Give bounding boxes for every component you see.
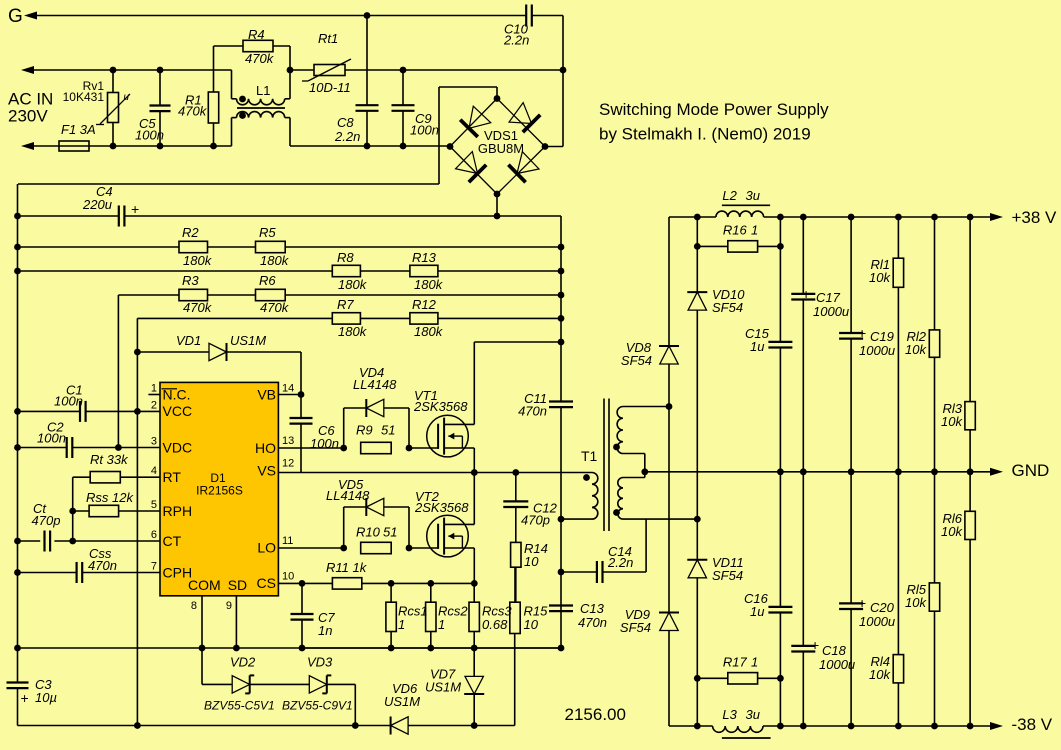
resistor R14: [511, 542, 521, 602]
resistor Rl2 labels: [905, 329, 927, 357]
svg-text:3: 3: [151, 436, 157, 448]
svg-text:10: 10: [282, 571, 294, 583]
svg-text:1: 1: [751, 222, 758, 237]
junction CT left bus: [14, 538, 21, 545]
resistor Rl4: [893, 655, 903, 683]
varistor Rv1 labels: [63, 79, 130, 104]
resistor R6: [256, 289, 286, 300]
junction C9 bottom: [400, 143, 407, 150]
svg-text:1u: 1u: [750, 604, 764, 619]
svg-text:+: +: [21, 690, 29, 706]
wire AC line upper: [21, 66, 232, 74]
svg-text:C13: C13: [580, 601, 605, 616]
resistor R16: [697, 241, 780, 252]
diode VD11: [687, 560, 707, 578]
svg-text:GND: GND: [1012, 461, 1050, 480]
junction R8R13 right: [558, 268, 565, 275]
svg-text:1: 1: [398, 617, 405, 632]
svg-text:COM: COM: [188, 577, 221, 593]
resistor R15 label: [524, 604, 549, 633]
svg-text:0.68: 0.68: [482, 617, 508, 632]
node G label: [8, 6, 23, 27]
fuse F1: [21, 141, 232, 151]
junction VD1 left: [134, 349, 141, 356]
svg-text:10k: 10k: [941, 524, 963, 539]
junction C9 top: [400, 67, 407, 74]
svg-text:2: 2: [151, 399, 157, 411]
resistor R2: [179, 241, 208, 252]
svg-text:Rss 12k: Rss 12k: [86, 490, 134, 505]
thermistor Rt1: [302, 59, 351, 81]
svg-text:GBU8M: GBU8M: [478, 141, 524, 156]
svg-text:6: 6: [151, 529, 157, 541]
capacitor C20 labels: [858, 595, 895, 629]
wire -38 rail: [669, 725, 991, 727]
text part number: [565, 705, 626, 724]
wire AC line lower to bridge: [290, 145, 450, 147]
svg-text:180k: 180k: [414, 324, 444, 339]
svg-text:Switching Mode Power Supply: Switching Mode Power Supply: [599, 100, 829, 119]
svg-text:N.C.: N.C.: [163, 386, 191, 402]
junction R16 right: [777, 243, 784, 250]
junction VDC left bus: [14, 444, 21, 451]
wire CPH line: [18, 572, 161, 574]
svg-text:R8: R8: [337, 250, 354, 265]
bridge diode bottom-right: [508, 152, 539, 183]
wire VD3 down: [327, 684, 356, 725]
svg-text:1000u: 1000u: [813, 304, 849, 319]
inductor L2: [716, 211, 764, 217]
svg-text:BZV55-C5V1: BZV55-C5V1: [204, 699, 275, 713]
resistor Rl5 labels: [905, 582, 927, 610]
capacitor C10: [526, 5, 563, 27]
junction L2 right rail: [777, 214, 784, 221]
junction C7 top: [299, 580, 306, 587]
svg-text:10D-11: 10D-11: [309, 80, 351, 95]
svg-text:RT: RT: [163, 469, 182, 485]
junction bottom VD3: [352, 722, 359, 729]
svg-text:R13: R13: [412, 250, 437, 265]
IC pin4 RT label: [151, 465, 181, 485]
transistor VT1 labels: [413, 388, 468, 414]
diode VD10: [687, 292, 707, 310]
svg-text:C18: C18: [822, 643, 847, 658]
junction Rcs1 bottom: [388, 645, 395, 652]
svg-text:470k: 470k: [178, 104, 208, 119]
capacitor C17 labels: [802, 286, 849, 319]
capacitor C16 labels: [744, 591, 769, 619]
junction CT leg: [69, 538, 76, 545]
junction Rl3 rail: [967, 214, 974, 221]
svg-text:230V: 230V: [8, 107, 48, 126]
svg-text:180k: 180k: [260, 253, 290, 268]
svg-text:R12: R12: [412, 297, 437, 312]
junction secondary bottom tap: [694, 516, 701, 523]
diode VD5: [366, 498, 384, 516]
node -38V label: [1012, 715, 1053, 734]
svg-text:R7: R7: [337, 297, 354, 312]
svg-text:10µ: 10µ: [35, 690, 57, 705]
svg-text:RPH: RPH: [163, 503, 193, 519]
svg-text:470p: 470p: [521, 513, 550, 528]
svg-text:VB: VB: [257, 386, 276, 402]
resistor R1: [208, 46, 218, 146]
resistor Rl1: [893, 258, 903, 287]
junction Rl3 gnd: [967, 468, 974, 475]
junction COM pin: [199, 645, 206, 652]
wire CT line: [18, 540, 161, 542]
resistor R4 labels: [245, 27, 275, 66]
capacitor C18: [791, 646, 815, 652]
junction VD11 R17: [694, 675, 701, 682]
svg-text:2.2n: 2.2n: [503, 33, 529, 48]
wire VCC line: [18, 410, 161, 412]
thermistor Rt1 labels: [309, 31, 351, 95]
IC pin14 VB label: [257, 383, 294, 403]
junction C14 left: [558, 569, 565, 576]
junction VS VT1: [471, 469, 478, 476]
junction secondary top tap: [666, 403, 673, 410]
resistor Rl1 labels: [869, 257, 891, 285]
resistor R10: [361, 542, 392, 553]
diode VD2 labels: [204, 655, 275, 713]
wire R7R12 left leg: [136, 318, 138, 725]
resistor R1 labels: [178, 93, 208, 119]
svg-text:51: 51: [383, 525, 397, 540]
svg-text:1n: 1n: [318, 623, 332, 638]
resistor Rcs2: [426, 583, 436, 648]
wire VD2 branch: [202, 648, 232, 684]
diode VD8: [659, 346, 679, 364]
diode VD9: [659, 613, 679, 631]
junction R2R5 left: [14, 244, 21, 251]
resistor R4: [214, 40, 291, 70]
diode VD8 column: [668, 217, 670, 726]
wire bridge top to left bus: [18, 87, 497, 184]
wire VT2 source to CS: [473, 548, 475, 583]
resistor R3 labels: [182, 273, 213, 315]
capacitor Css: [77, 562, 83, 583]
transformer T1 secondary 2 dot: [613, 509, 620, 516]
inductor L1 polarity dot top: [239, 96, 246, 103]
svg-text:VS: VS: [257, 463, 276, 479]
resistor R12: [410, 313, 438, 324]
diode VD3 labels: [282, 655, 353, 713]
junction Rcs3 bottom: [471, 645, 478, 652]
wire LO line: [278, 547, 343, 549]
capacitor C11 labels: [518, 391, 547, 419]
junction secondary mid: [641, 468, 648, 475]
wire VT1 source to VS: [473, 448, 475, 473]
svg-text:VDC: VDC: [163, 439, 193, 455]
capacitor C4 labels: [82, 184, 139, 217]
svg-text:+: +: [858, 325, 866, 341]
diode VD11 labels: [712, 555, 744, 583]
svg-text:470k: 470k: [183, 300, 213, 315]
junction SD pin: [233, 645, 240, 652]
svg-text:100n: 100n: [135, 128, 164, 143]
svg-text:R5: R5: [259, 225, 276, 240]
svg-text:1000u: 1000u: [859, 343, 895, 358]
resistor R8: [332, 265, 360, 276]
diode VD10 labels: [712, 287, 745, 315]
capacitor C5 labels: [135, 116, 164, 143]
svg-text:R6: R6: [259, 273, 276, 288]
svg-text:1: 1: [751, 654, 758, 669]
junction VD11 rail: [694, 723, 701, 730]
junction R17 right: [777, 675, 784, 682]
wire VD2-VD3: [250, 683, 310, 685]
capacitor C17 column: [802, 217, 804, 726]
transistor VT2 2SK3568: [427, 515, 475, 557]
bridge VDS1 labels: [478, 128, 524, 156]
svg-text:VCC: VCC: [163, 403, 193, 419]
junction C18 rail: [800, 723, 807, 730]
junction R9 right: [406, 445, 413, 452]
transformer T1 core: [604, 399, 609, 532]
capacitor C14 labels: [607, 544, 633, 570]
junction Rl5 rail: [931, 723, 938, 730]
junction C4 left: [14, 213, 21, 220]
svg-text:13: 13: [282, 435, 294, 447]
svg-text:R17: R17: [723, 654, 748, 669]
svg-text:L1: L1: [256, 83, 270, 98]
IC pin5 RPH label: [151, 499, 192, 519]
capacitor C1 labels: [54, 383, 83, 409]
capacitor Ct labels: [32, 501, 61, 528]
junction R7R12 right: [558, 315, 565, 322]
svg-text:US1M: US1M: [425, 680, 461, 695]
capacitor C6: [290, 395, 313, 473]
resistor Rl5: [929, 583, 939, 611]
resistor R5: [256, 241, 286, 252]
resistor Rcs1 label: [398, 604, 428, 633]
svg-text:2SK3568: 2SK3568: [414, 500, 469, 515]
capacitor C17: [791, 294, 815, 300]
svg-text:180k: 180k: [338, 277, 368, 292]
IC pin7 CPH label: [151, 561, 192, 581]
junction C10/AC2: [560, 67, 567, 74]
resistor R9: [361, 442, 392, 453]
capacitor C5: [150, 70, 171, 146]
svg-text:SF54: SF54: [712, 568, 743, 583]
svg-text:CT: CT: [163, 533, 182, 549]
svg-text:1000u: 1000u: [819, 657, 855, 672]
resistor R12 labels: [412, 297, 444, 339]
junction bridge out: [494, 213, 501, 220]
svg-text:C20: C20: [870, 600, 895, 615]
svg-text:+: +: [811, 637, 819, 653]
wire left bus: [17, 184, 19, 726]
wire bridge bottom: [496, 194, 498, 216]
svg-text:5: 5: [151, 499, 157, 511]
capacitor C3: [7, 683, 29, 689]
svg-text:+38 V: +38 V: [1012, 208, 1058, 227]
resistor R13: [410, 265, 438, 276]
svg-text:3u: 3u: [746, 188, 760, 203]
wire HO line: [278, 447, 343, 449]
resistor Rl2: [929, 330, 939, 357]
svg-text:Rt1: Rt1: [318, 31, 338, 46]
wire bottom line: [18, 725, 391, 727]
svg-text:C19: C19: [870, 329, 894, 344]
junction L3 right rail: [777, 723, 784, 730]
capacitor C3 labels: [21, 677, 57, 706]
transformer T1 secondary 2: [618, 472, 698, 519]
capacitor C19: [839, 333, 863, 339]
svg-text:10: 10: [524, 617, 539, 632]
node +38V label: [1012, 208, 1058, 227]
wire +38 rail: [669, 216, 991, 218]
wire R8R13 line: [18, 270, 562, 272]
svg-text:100n: 100n: [410, 123, 439, 138]
resistor R5 labels: [259, 225, 290, 268]
svg-text:180k: 180k: [183, 253, 213, 268]
svg-text:180k: 180k: [338, 324, 368, 339]
resistor Rcs3 label: [482, 604, 512, 633]
resistor R10 label: [356, 525, 397, 540]
junction C17 gnd: [800, 468, 807, 475]
svg-text:u: u: [124, 92, 130, 103]
resistor R2 labels: [182, 225, 213, 268]
inductor L1 label: [256, 83, 270, 98]
svg-text:+: +: [131, 201, 139, 217]
resistor R7: [332, 313, 360, 324]
junction COM rail bus: [14, 645, 21, 652]
bridge diode top-left: [460, 106, 491, 137]
junction VCC x137: [134, 408, 141, 415]
resistor R13 labels: [412, 250, 444, 292]
resistor Rl5 column: [934, 472, 936, 726]
wire primary bottom: [561, 518, 592, 520]
svg-text:9: 9: [226, 600, 232, 612]
svg-text:470p: 470p: [32, 513, 61, 528]
junction C5 top: [157, 67, 164, 74]
wire COM rail: [18, 647, 562, 649]
capacitor C12 labels: [521, 501, 558, 528]
svg-text:R9: R9: [356, 423, 373, 438]
fuse F1 label: [61, 122, 96, 137]
capacitor C15: [768, 342, 792, 348]
svg-text:4: 4: [151, 465, 157, 477]
inductor L1 polarity dot bottom: [239, 112, 246, 119]
junction C15 gnd: [777, 468, 784, 475]
junction C12 top: [512, 469, 519, 476]
wire Rt-Rss leg: [72, 477, 74, 541]
svg-text:1u: 1u: [750, 339, 764, 354]
svg-text:L3: L3: [722, 707, 737, 722]
wire VT1 gate: [409, 447, 438, 449]
capacitor Ct: [45, 531, 51, 552]
resistor Rl4 column: [897, 472, 899, 726]
junction Rcs2 bottom: [427, 645, 434, 652]
inductor L3 core: [722, 737, 771, 739]
resistor R11 label: [326, 560, 368, 575]
svg-text:+: +: [802, 286, 810, 302]
svg-text:2.2n: 2.2n: [334, 129, 360, 144]
junction C7 bottom: [299, 645, 306, 652]
svg-text:by Stelmakh I. (Nem0) 2019: by Stelmakh I. (Nem0) 2019: [599, 125, 811, 144]
resistor R15: [510, 567, 520, 633]
diode VD6 labels: [384, 681, 420, 709]
capacitor C15 labels: [745, 326, 770, 354]
capacitor C11: [549, 402, 573, 408]
capacitor C6 labels: [310, 423, 339, 451]
svg-text:VD1: VD1: [176, 333, 201, 348]
capacitor C10 label: [503, 22, 529, 48]
svg-text:100n: 100n: [37, 431, 66, 446]
resistor Rl2 column: [934, 217, 936, 472]
resistor Rcs3: [469, 583, 479, 648]
IC pin10 CS label: [257, 571, 295, 592]
svg-text:470k: 470k: [260, 300, 290, 315]
svg-text:1: 1: [151, 383, 157, 395]
transformer T1 primary: [592, 473, 598, 520]
junction R8R13 left: [14, 268, 21, 275]
svg-text:IR2156S: IR2156S: [196, 484, 243, 498]
svg-text:US1M: US1M: [384, 694, 420, 709]
junction Rl4 rail: [895, 723, 902, 730]
resistor Rl3 labels: [941, 401, 963, 429]
IC pin9 SD label: [226, 577, 247, 612]
junction C5 bottom: [157, 143, 164, 150]
wire bridge right vertex: [545, 146, 563, 148]
bridge VDS1 outline: [450, 99, 545, 195]
wire COM rail middle: [302, 647, 561, 649]
junction C19 gnd: [848, 468, 855, 475]
junction R2R5 right: [558, 244, 565, 251]
svg-text:Rt 33k: Rt 33k: [90, 452, 129, 467]
svg-text:BZV55-C9V1: BZV55-C9V1: [282, 699, 353, 713]
capacitor C19 labels: [858, 325, 895, 358]
svg-text:470k: 470k: [245, 51, 275, 66]
svg-text:G: G: [8, 6, 23, 27]
resistor Rl6 labels: [941, 511, 963, 539]
resistor Rcs2 label: [438, 604, 468, 633]
diode VD3 zener: [309, 675, 331, 693]
diode VD6: [391, 717, 475, 735]
bridge diode bottom-left: [456, 152, 487, 183]
capacitor C20: [839, 603, 863, 609]
svg-text:8: 8: [191, 600, 197, 612]
svg-text:11: 11: [282, 535, 293, 547]
junction VD7 bottom: [471, 722, 478, 729]
wire C4 line: [18, 215, 562, 217]
svg-text:51: 51: [381, 423, 395, 438]
capacitor C8: [356, 16, 379, 147]
resistor R7 labels: [337, 297, 368, 339]
junction VB node: [298, 391, 305, 398]
diode VD10 column: [696, 217, 698, 726]
wire COM pin8: [201, 596, 203, 648]
wire VDC line: [18, 447, 161, 449]
resistor Rl6: [965, 511, 975, 539]
junction Rl1 rail: [895, 214, 902, 221]
svg-text:470n: 470n: [578, 615, 607, 630]
svg-text:10k: 10k: [905, 595, 927, 610]
wire VB stub: [278, 394, 301, 396]
IC pin12 VS label: [257, 458, 294, 479]
svg-text:VD2: VD2: [230, 655, 256, 670]
diode VD4: [366, 399, 384, 417]
svg-text:F1 3A: F1 3A: [61, 122, 96, 137]
svg-text:10k: 10k: [941, 414, 963, 429]
resistor Rss: [73, 505, 160, 516]
wire AC upper right of L1: [290, 69, 563, 71]
junction C17 rail: [800, 214, 807, 221]
junction R10 left: [340, 545, 347, 552]
wire G line: [24, 12, 526, 20]
